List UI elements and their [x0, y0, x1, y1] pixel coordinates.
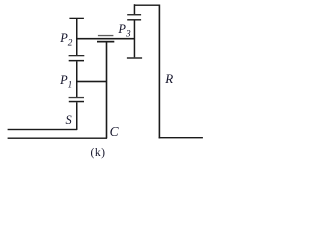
label R: [165, 72, 173, 85]
plate terminal (bottom of P3 branch): [127, 57, 142, 58]
plate terminal (top of P2 branch): [69, 18, 84, 19]
wire (left vertical, P2 to P1): [76, 61, 78, 97]
label P3: [118, 23, 130, 40]
wire (middle vertical lead of C down to bottom wire): [106, 43, 108, 139]
label C: [110, 125, 119, 138]
label P2: [60, 32, 72, 49]
wire (P3 vertical, top): [134, 4, 136, 14]
caption (k): [91, 147, 106, 159]
label P1: [60, 74, 72, 91]
capacitor P2: [69, 55, 85, 56]
wire (bottom wire to switch S): [8, 129, 78, 130]
wire (top horizontal bus): [76, 38, 135, 40]
wire (bottom right): [159, 137, 203, 138]
wire (top wire of P3 branch): [134, 5, 159, 6]
capacitor C (middle), top plate: [98, 35, 114, 36]
wire (right vertical, resistor R branch): [159, 5, 161, 139]
wire (left vertical, terminal to capacitor P2): [76, 19, 78, 55]
capacitor P1: [69, 97, 84, 98]
wire (left vertical, P1 down to bottom wire, switch S lead): [76, 102, 78, 130]
capacitor P3: [127, 14, 141, 15]
wire (bottom wire to capacitor C): [8, 138, 107, 139]
wire (middle horizontal): [76, 81, 107, 83]
label S: [65, 114, 71, 126]
capacitor C (middle), bottom plate: [97, 41, 114, 43]
wire (P3 vertical, bottom): [134, 21, 136, 58]
